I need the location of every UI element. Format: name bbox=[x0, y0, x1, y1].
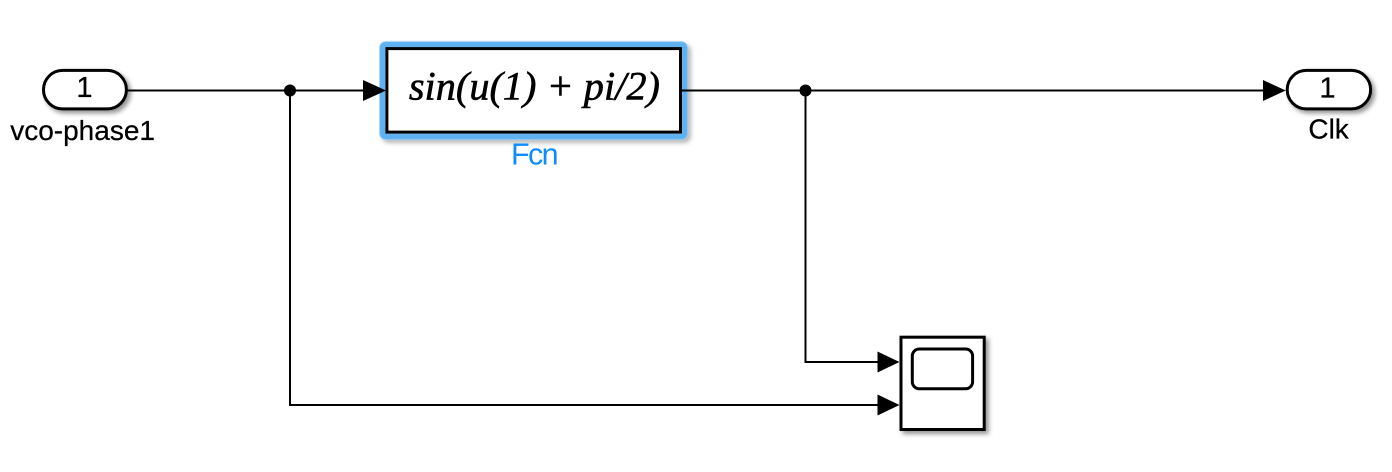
Fcn block body U1 bbox=[387, 49, 681, 133]
Fcn selection highlight bbox=[383, 45, 685, 137]
node B junction dot bbox=[800, 85, 812, 97]
wire: branch down from node A to scope input 2 bbox=[290, 91, 879, 406]
svg-text:Clk: Clk bbox=[1308, 114, 1349, 145]
wire: inport to Fcn bbox=[128, 90, 365, 92]
svg-text:Fcn: Fcn bbox=[511, 137, 557, 171]
inport block In1 bbox=[44, 70, 127, 109]
svg-text:vco-phase1: vco-phase1 bbox=[10, 115, 155, 146]
arrowhead scope input 2 bbox=[878, 395, 900, 416]
svg-text:1: 1 bbox=[76, 72, 92, 104]
arrowhead scope input 1 bbox=[878, 352, 900, 373]
wire: node B to scope input 1 bbox=[806, 91, 879, 363]
svg-text:sin(u(1) + pi/2): sin(u(1) + pi/2) bbox=[409, 64, 660, 109]
wire: Fcn to outport bbox=[681, 90, 1265, 92]
arrowhead into outport bbox=[1263, 80, 1286, 101]
node A junction dot bbox=[284, 85, 296, 97]
outport block Clk bbox=[1287, 70, 1370, 109]
scope block bbox=[901, 337, 984, 429]
svg-text:1: 1 bbox=[1319, 73, 1335, 105]
arrowhead into Fcn bbox=[363, 80, 386, 101]
scope screen bbox=[912, 349, 972, 389]
